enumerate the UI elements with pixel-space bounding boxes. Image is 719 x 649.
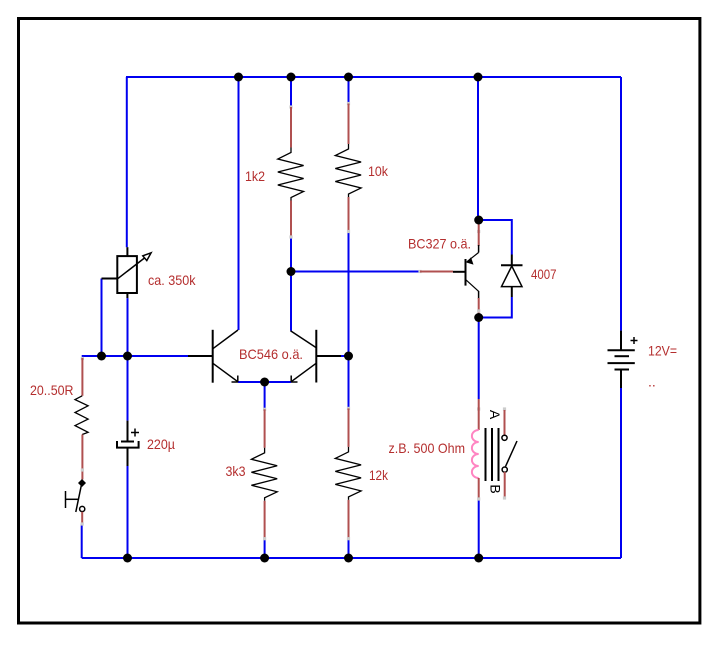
node top rail 2 [287,73,296,82]
svg-text:4007: 4007 [531,266,557,282]
wire node to capacitor [127,356,129,421]
node R1 bottom [287,267,296,276]
wire Q3 emitter drop [477,77,479,220]
relay coil K1 [472,399,499,501]
capacitor C1 220u [117,421,139,466]
svg-text:BC546 o.ä.: BC546 o.ä. [239,346,303,362]
wire cap to bottom rail [127,466,129,558]
wire switch to bottom rail [81,524,83,558]
wire R1 bottom to node [290,237,292,272]
node top rail 1 [234,73,243,82]
node top rail 4 [474,73,483,82]
svg-text:A: A [487,410,503,420]
svg-text:ca. 350k: ca. 350k [148,272,196,288]
wire Q3 collector to relay [478,318,480,400]
wire diode top link [479,220,512,255]
node Q3 emitter [474,216,483,225]
node wiper [97,352,106,361]
node cap top [123,352,132,361]
svg-text:12V=: 12V= [648,343,677,359]
wire relay to bottom rail [478,500,480,558]
node bottom rail 2 [260,554,269,563]
wire bottom rail [82,557,621,559]
wire base node to R4 top [348,356,350,408]
relay contact S2 [502,407,517,499]
wire node to Q2 collector [290,272,292,331]
wire emitters join [238,381,291,383]
resistor R4 12k [335,407,361,541]
resistor R5 20..50R [75,357,88,480]
wire right base [316,355,348,357]
wire diode bottom link [479,297,512,318]
wire emitter node to R3 [264,382,266,409]
wire R2 top [348,77,350,104]
node bottom rail 1 [123,554,132,563]
wire left base [82,355,188,357]
wire R1 top [290,77,292,107]
node bottom rail 4 [474,554,483,563]
wire R3 bottom [264,539,266,558]
wire R4 bottom [348,539,350,558]
svg-text:z.B. 500 Ohm: z.B. 500 Ohm [389,440,466,456]
node right base [344,352,353,361]
svg-text:220µ: 220µ [147,436,175,452]
resistor R2 10k [335,102,361,233]
svg-text:1k2: 1k2 [245,168,265,184]
potentiometer P1 ca. 350k [102,247,152,298]
resistor R3 3k3 [251,408,277,541]
wire top rail [126,76,621,78]
node Q3 collector [474,313,483,322]
transistor Q2 BC546 right [291,330,342,383]
transistor Q3 BC327 [418,220,480,318]
wire battery bottom [620,388,622,558]
transistor Q1 BC546 left [188,330,238,383]
svg-text:12k: 12k [369,467,389,483]
node top rail 3 [344,73,353,82]
svg-text:B: B [488,484,504,493]
wire node to Q3 base [291,271,420,273]
svg-text:..: .. [648,374,656,390]
wire Q1 collector drop [238,77,240,330]
node bottom rail 3 [344,554,353,563]
wire R2 bottom to base node [348,232,350,357]
wire pot branch vertical [126,77,128,247]
battery B1 12V [608,331,638,388]
svg-text:BC327 o.ä.: BC327 o.ä. [408,236,471,252]
diode D1 4007 [501,255,523,298]
wire battery top [620,77,622,331]
pushbutton S1 [66,479,87,526]
resistor R1 1k2 [278,105,304,238]
svg-text:10k: 10k [368,163,389,179]
node emitters [260,378,269,387]
svg-text:3k3: 3k3 [226,463,246,479]
wire pot bottom down [127,298,129,356]
svg-text:20..50R: 20..50R [30,382,74,398]
wire pot wiper down [101,279,103,357]
